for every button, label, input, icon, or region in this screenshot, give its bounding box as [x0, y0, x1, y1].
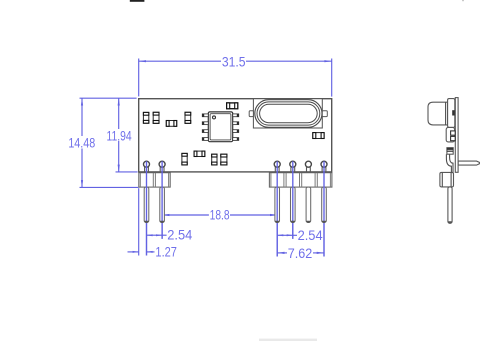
svg-text:14.48: 14.48 [68, 135, 95, 151]
svg-text:11.94: 11.94 [107, 128, 132, 144]
svg-text:2.54: 2.54 [298, 227, 324, 243]
svg-text:2.54: 2.54 [167, 227, 193, 243]
svg-text:1.27: 1.27 [155, 244, 177, 260]
svg-text:7.62: 7.62 [288, 245, 312, 261]
svg-text:31.5: 31.5 [222, 53, 246, 69]
svg-text:18.8: 18.8 [210, 207, 230, 223]
